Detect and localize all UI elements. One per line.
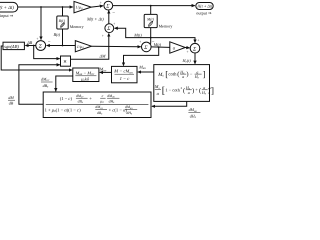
svg-text:+: + [113,21,116,26]
wire M(t) down into S3 NE [149,38,152,45]
svg-text:Σ: Σ [106,26,111,32]
svg-text:dMan: dMan [189,107,198,113]
wire Mirr from M-cMan box into kdelta box [100,71,112,73]
svg-text:sgn(ΔB): sgn(ΔB) [4,44,19,49]
svg-text:dMirr: dMirr [95,105,104,110]
block sgn(dB) [3,42,24,49]
wire S1 to output stadium [113,5,195,7]
output node H(t+dt) stadium [196,3,213,10]
svg-text:Σ: Σ [105,4,110,10]
svg-text:(: ( [199,87,201,94]
svg-text:+: + [197,38,200,43]
svg-text:+: + [139,39,142,44]
node junction dB split [33,45,35,47]
gain triangle 1/mu0 middle [75,41,91,52]
svg-text:a: a [182,74,184,79]
svg-text:Mirr: Mirr [99,67,108,73]
svg-text:dB: dB [9,101,14,106]
wire M memory down to junction [150,28,152,38]
svg-text:Σ: Σ [143,45,148,51]
svg-text:output ⇒: output ⇒ [196,11,212,16]
svg-text:μ0kδ: μ0kδ [81,77,90,83]
svg-text:+: + [195,87,198,92]
node junction B(t) split [62,45,64,47]
svg-text:−: − [190,71,193,76]
svg-text:a: a [157,91,160,96]
memory block B(t) curve glyph [60,22,66,28]
multiplier box [61,56,71,66]
formula bottom box fraction bar [46,103,149,105]
svg-text:Ms: Ms [157,72,164,78]
memory block M(t) [144,14,157,27]
formula big box row1: Ms[coth(He/a) - a/He] [157,69,205,80]
svg-text:coth: coth [168,72,177,78]
gain triangle alpha [170,42,186,53]
svg-text:ΔM: ΔM [99,54,106,59]
input node B(t+dt) stadium [0,2,18,12]
svg-text:Σ: Σ [38,44,43,50]
svg-text:]: ] [203,69,206,79]
svg-text:M − cMan: M − cMan [113,69,133,75]
wire alpha to S4 [185,47,189,49]
svg-text:Memory: Memory [70,24,84,29]
svg-text:Ms: Ms [154,84,161,90]
svg-text:1 − c: 1 − c [120,76,130,81]
svg-text:M(t): M(t) [153,42,162,47]
wire Man from big box into M-cMan box [138,71,154,73]
svg-text:]: ] [211,85,214,95]
svg-text:dMirr: dMirr [76,94,85,99]
svg-text:M(t): M(t) [146,17,155,21]
svg-text:He: He [201,90,207,96]
svg-text:B(t + Δt): B(t + Δt) [0,5,14,11]
wire B memory down to dB summer minus [62,29,64,46]
svg-text:ΔB: ΔB [26,40,32,45]
memory block B(t) [57,16,68,29]
wire B(t) row to triangle2 [63,45,76,47]
svg-text:B(t): B(t) [59,19,66,23]
wire dB down and right into multiplier [34,46,60,59]
svg-text:Man: Man [138,64,146,70]
wire input to triangle 1/mu0 (top) [18,6,73,8]
svg-text:B(t): B(t) [54,32,61,37]
wire dMirr/dBe from kdelta box down into dM/dB box [56,76,73,91]
svg-text:c: c [102,94,104,98]
svg-text:dBe: dBe [97,111,103,116]
label fraction dMirr/dBe [41,77,53,89]
svg-text:μ0: μ0 [100,100,104,105]
wire B(t) row into dB summer right [47,45,63,47]
svg-text:(: ( [183,87,185,94]
svg-text:1 + μ0(1 − α)(1 − c): 1 + μ0(1 − α)(1 − c) [45,107,81,113]
svg-text:dMan: dMan [107,94,115,99]
wire M(t) left to S2 right input [115,28,151,37]
summer S3 [142,42,152,52]
svg-text:1/μ0: 1/μ0 [76,5,83,11]
svg-text:α: α [173,45,176,50]
node junction M(t) [150,37,152,39]
formula big box row2: Ms/a[1 - coth2(He/a) + (a/He)2] [154,84,214,96]
svg-text:+: + [100,0,103,5]
svg-text:1/μ0: 1/μ0 [77,44,84,50]
svg-text:+: + [102,33,105,38]
label fraction dMan/dHe [188,107,200,119]
formula in kdelta box: (Man - Mirr)/(mu0 k delta) [75,70,97,82]
svg-text:a: a [188,90,190,95]
wire dB out to sgn box [25,45,35,47]
svg-text:M(t + Δt): M(t + Δt) [86,17,104,22]
svg-text:+: + [36,36,39,41]
formula in Mirr box: (M - cMan)/(1 - c) [113,69,134,81]
svg-text:M(t): M(t) [133,32,142,37]
svg-text:dHe: dHe [190,113,197,119]
wire dMan/dHe from big box bottom into dM/dB box right [152,101,187,106]
wire dM out of multiplier up to summer S2 [71,34,109,60]
memory block M(t) curve glyph [147,20,153,27]
svg-text:H(t + Δt): H(t + Δt) [196,4,212,9]
box Man-Mirr over mu0 k delta [73,68,99,82]
gain triangle 1/mu0 top [74,1,91,12]
wire triangle2 to summer S3 [91,45,140,48]
wire dM/dB feedback up into multiplier [19,65,60,105]
wire S2 up to S1 minus [108,11,110,24]
wire S3 out to alpha triangle [151,46,170,49]
svg-text:−: − [48,40,51,45]
summer S1 (H output) [104,1,113,10]
wire sgn out left around to k-delta box [1,46,72,70]
summer S_dB [36,41,46,51]
svg-text:He(t): He(t) [182,58,192,64]
svg-text:1 − coth: 1 − coth [165,87,180,92]
svg-text:(: ( [177,71,179,78]
svg-text:(1 − c): (1 − c) [60,96,73,101]
svg-text:−: − [112,11,115,16]
svg-text:): ) [192,87,194,94]
wire tap down into B memory [62,7,64,16]
svg-text:): ) [186,71,188,78]
svg-text:Memory: Memory [159,23,173,28]
box M-cMan over 1-c [112,66,138,82]
svg-text:dBe: dBe [78,100,84,105]
summer S4 (He) [190,43,200,53]
svg-text:dM: dM [8,95,14,100]
big bottom box dM/dB [43,92,151,118]
svg-text:dMirr: dMirr [41,77,50,83]
wire triangle to top summer [91,6,103,7]
svg-text:input ⇒: input ⇒ [0,13,14,18]
node tap junction to B memory [62,6,64,8]
wire tap down and left into Mirr box top [124,47,159,66]
svg-text:dHe: dHe [109,100,116,105]
formula bottom box numerator [60,94,120,104]
svg-text:dBe: dBe [43,83,49,89]
wire S4 down into Langevin box [194,53,196,64]
summer S2 (M(t+dt)) [105,24,114,33]
wire M(t) right into S4 top [151,38,195,43]
svg-text:+: + [89,96,92,101]
formula bottom box denominator [45,105,138,115]
node tap junction to dB summer [40,6,42,8]
wire tap down into M memory [150,6,152,15]
svg-text:+: + [186,49,189,54]
svg-text:dHe: dHe [126,111,133,116]
big box Langevin Man and dMan/dHe [154,65,210,102]
svg-text:dMan: dMan [125,105,133,110]
svg-text:He: He [194,74,200,80]
svg-text:Man − Mirr: Man − Mirr [75,70,96,76]
svg-text:×: × [63,59,67,66]
wire tap down to dB summer plus [40,7,42,40]
svg-text:Σ: Σ [192,46,197,52]
node tap junction to M memory [150,5,152,7]
label fraction dM/dB left [8,95,15,106]
node junction on S3 output [158,46,160,48]
